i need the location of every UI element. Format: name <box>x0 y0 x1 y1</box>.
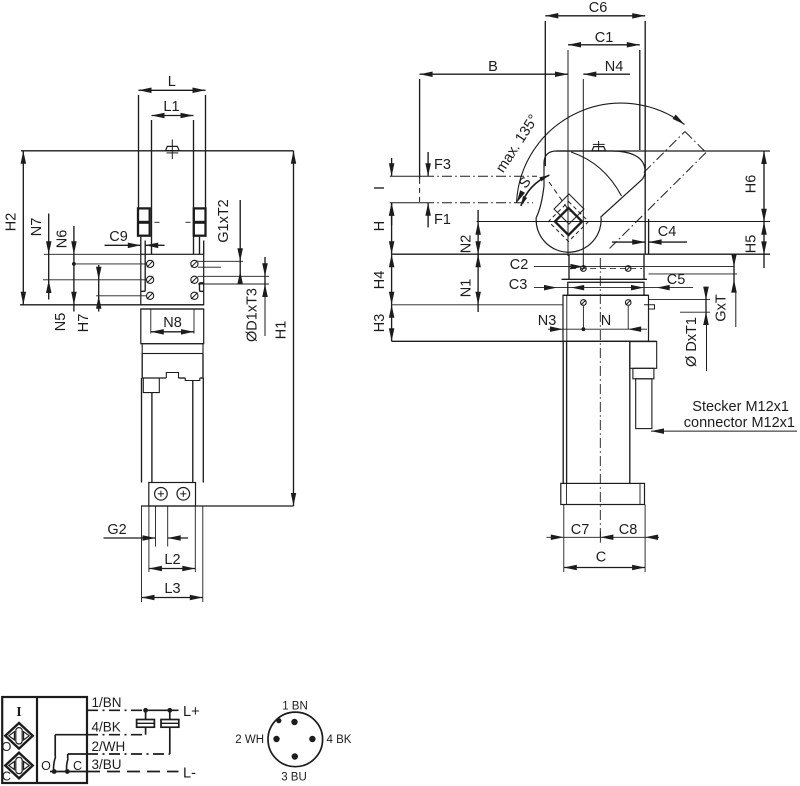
svg-text:I: I <box>372 186 388 190</box>
svg-text:C3: C3 <box>509 277 528 293</box>
svg-text:4 BK: 4 BK <box>327 734 352 746</box>
dimension N7 <box>48 214 50 300</box>
dimension H3 <box>391 305 393 342</box>
head lower verticals <box>568 255 570 279</box>
svg-text:H7: H7 <box>76 314 92 333</box>
svg-text:C5: C5 <box>667 272 686 288</box>
slot center marks <box>155 221 160 223</box>
dimension C7 C8 <box>563 505 565 542</box>
switch C <box>68 753 87 755</box>
svg-text:Ø DxT1: Ø DxT1 <box>684 317 700 367</box>
switch common wire <box>50 771 87 773</box>
flange plate <box>562 278 648 280</box>
svg-text:B: B <box>488 59 498 75</box>
svg-text:2 WH: 2 WH <box>235 734 264 746</box>
bottom block screw right <box>177 488 190 501</box>
svg-text:C9: C9 <box>109 229 128 245</box>
svg-text:4/BK: 4/BK <box>92 720 121 735</box>
sensor slot block right <box>194 208 206 235</box>
svg-text:C8: C8 <box>619 522 638 538</box>
svg-text:H: H <box>372 221 388 231</box>
svg-text:N6: N6 <box>55 230 71 249</box>
svg-text:N8: N8 <box>163 315 182 331</box>
dimension H7 <box>98 265 100 312</box>
dimension F3 <box>427 152 429 176</box>
flange top line <box>392 253 770 255</box>
dimension N1 <box>477 254 479 312</box>
dimension N2 <box>477 210 479 266</box>
body neck lines <box>140 237 142 255</box>
svg-text:L+: L+ <box>183 704 200 720</box>
switch O <box>55 734 87 736</box>
svg-text:L-: L- <box>183 766 196 782</box>
svg-text:N7: N7 <box>29 218 45 237</box>
phantom arm diagonal bottom <box>608 153 707 251</box>
top reference line <box>21 150 294 152</box>
svg-text:N4: N4 <box>605 59 624 75</box>
dimension N8 <box>150 309 152 334</box>
dimension L2 <box>148 506 150 572</box>
svg-text:C7: C7 <box>571 522 590 538</box>
svg-text:N2: N2 <box>459 235 475 254</box>
dimension N4 <box>582 79 584 269</box>
pin 1 <box>291 719 297 725</box>
svg-text:C1: C1 <box>595 30 614 46</box>
dimension H4 <box>391 254 393 305</box>
dimension F1 <box>427 203 429 228</box>
load resistor 2 <box>169 710 171 719</box>
base reference line <box>20 304 204 306</box>
svg-text:C2: C2 <box>510 257 529 273</box>
dimension G2 <box>155 506 157 547</box>
flange bottom line <box>392 340 657 342</box>
svg-text:GxT: GxT <box>714 294 730 322</box>
left leader row3 <box>96 295 147 297</box>
dimension H2 <box>22 151 24 305</box>
svg-text:H2: H2 <box>4 213 20 232</box>
svg-text:connector M12x1: connector M12x1 <box>684 415 795 431</box>
left leader row1 <box>72 263 147 265</box>
svg-text:C: C <box>2 770 11 784</box>
left leader row2 <box>43 279 147 281</box>
dimension N3 N <box>582 306 584 329</box>
svg-text:C: C <box>596 550 606 566</box>
sensor slot block left <box>138 208 150 235</box>
svg-text:2/WH: 2/WH <box>92 739 126 754</box>
pin 3 <box>292 753 298 759</box>
dimension B <box>419 79 421 179</box>
dimension C4 <box>612 241 645 243</box>
flange top extension <box>44 253 141 255</box>
housing bump <box>185 378 200 381</box>
dimension L1 <box>151 120 153 151</box>
sensor O symbol <box>5 723 32 749</box>
shaft square thin <box>554 194 584 224</box>
dimension H1 <box>293 151 295 506</box>
N8 box <box>141 309 204 344</box>
load resistor 1 <box>145 710 147 719</box>
DxT1 leaders <box>649 299 711 301</box>
svg-text:Stecker M12x1: Stecker M12x1 <box>692 399 789 415</box>
junction dots L+ <box>143 708 148 713</box>
arm mid dashed line <box>549 182 570 212</box>
pivot centerline horizontal <box>477 221 771 223</box>
svg-text:N: N <box>601 313 611 329</box>
svg-text:H4: H4 <box>372 271 388 290</box>
gripper finger left <box>151 151 153 255</box>
dimension L <box>138 95 140 209</box>
body column <box>562 341 564 483</box>
flange screws bottom <box>581 300 587 306</box>
svg-text:N1: N1 <box>459 279 475 298</box>
flange box <box>563 295 649 341</box>
top screw <box>171 140 173 160</box>
connector M12 <box>630 342 657 369</box>
dimension G1xT2 <box>239 200 241 284</box>
svg-text:H5: H5 <box>744 235 760 254</box>
valve section <box>142 344 203 354</box>
svg-text:H1: H1 <box>274 321 290 340</box>
svg-text:1 BN: 1 BN <box>282 701 308 713</box>
phantom arm diagonal top <box>644 132 685 173</box>
lower band <box>141 308 204 310</box>
dimension L3 <box>141 506 143 602</box>
svg-text:O: O <box>41 759 51 773</box>
bottom block <box>149 483 196 507</box>
head screw <box>598 141 600 151</box>
flange screws <box>147 260 154 267</box>
sensor C symbol <box>5 753 32 779</box>
column lines <box>141 378 143 483</box>
phantom arm horizontal top <box>390 175 424 177</box>
svg-text:I: I <box>16 705 21 720</box>
dimension D1xT3 <box>264 257 266 294</box>
svg-text:O: O <box>2 740 12 754</box>
svg-text:N5: N5 <box>53 313 69 332</box>
svg-text:C6: C6 <box>589 0 608 16</box>
svg-text:G2: G2 <box>107 522 126 538</box>
gripper finger right <box>193 151 195 255</box>
flange step <box>644 305 655 309</box>
pivot square <box>555 208 582 235</box>
bottom block screw left <box>155 488 168 501</box>
dimension DxT1 <box>705 288 707 316</box>
svg-text:3/BU: 3/BU <box>92 757 122 772</box>
svg-text:max. 135°: max. 135° <box>493 112 542 176</box>
right leader lines <box>198 260 243 262</box>
dimension C1 <box>639 50 641 150</box>
svg-text:C4: C4 <box>658 224 677 240</box>
sensor box divider <box>36 697 38 783</box>
svg-text:S: S <box>516 174 534 192</box>
svg-text:ØD1xT3: ØD1xT3 <box>245 288 261 342</box>
H reference 304.8 <box>392 304 563 306</box>
svg-text:F3: F3 <box>434 157 451 173</box>
svg-text:F1: F1 <box>434 212 451 228</box>
phantom arm horizontal bottom <box>390 202 424 204</box>
svg-text:G1xT2: G1xT2 <box>216 199 232 243</box>
svg-text:L: L <box>168 74 176 90</box>
bearing dashed square <box>549 202 589 242</box>
pivot axis vertical <box>567 50 569 256</box>
svg-text:H3: H3 <box>372 314 388 333</box>
left protrusion <box>143 378 159 393</box>
svg-text:3 BU: 3 BU <box>281 772 307 784</box>
GxT lower leader <box>649 273 738 275</box>
housing tab <box>166 373 178 379</box>
phantom arm diagonal end <box>685 132 706 153</box>
sensor box <box>2 697 87 783</box>
body axis <box>599 258 601 545</box>
svg-text:L3: L3 <box>164 581 180 597</box>
svg-text:L2: L2 <box>164 552 180 568</box>
svg-text:1/BN: 1/BN <box>92 695 122 710</box>
flange screws top <box>581 266 587 272</box>
pin 4 <box>309 736 315 742</box>
dimension I <box>391 158 393 176</box>
swivel head outline <box>536 151 645 252</box>
dimension C <box>563 542 565 573</box>
dimension H <box>391 203 393 255</box>
bottom block right view <box>561 483 645 504</box>
dimension N6 N5 <box>73 226 75 312</box>
dimension GxT <box>733 255 735 292</box>
H1 bottom reference <box>141 505 294 507</box>
flange block <box>141 254 204 304</box>
top reference line right <box>556 150 770 152</box>
pin 2 <box>273 736 279 742</box>
max 135 arc <box>517 103 685 203</box>
dimension H5 <box>763 222 765 268</box>
pin keying notch <box>276 718 281 723</box>
connector pinout circle <box>268 712 323 767</box>
S arc <box>521 175 550 206</box>
svg-text:N3: N3 <box>538 313 557 329</box>
dimension C6 <box>544 21 546 166</box>
head inner arc <box>571 152 622 196</box>
dimension H6 <box>763 151 765 222</box>
svg-text:L1: L1 <box>163 99 179 115</box>
phantom arm left face <box>419 179 421 203</box>
svg-text:H6: H6 <box>744 175 760 194</box>
lower housing <box>141 354 143 379</box>
